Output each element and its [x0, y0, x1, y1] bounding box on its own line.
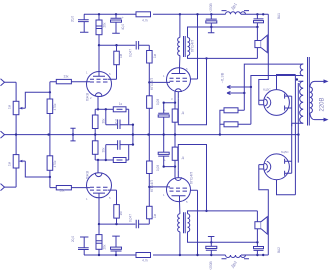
svg-text:ВА1: ВА1: [277, 13, 281, 19]
svg-text:+: +: [122, 16, 124, 20]
svg-text:20,0: 20,0: [70, 16, 74, 22]
svg-text:6Ж8: 6Ж8: [85, 170, 90, 179]
capacitor C3 on bus: [70, 128, 75, 141]
svg-text:1м: 1м: [8, 162, 12, 166]
wire heater column 2: [251, 76, 303, 125]
svg-text:20к: 20к: [103, 244, 107, 250]
svg-text:30к: 30к: [102, 147, 106, 153]
node bus junctions: [15, 133, 300, 135]
svg-text:+: +: [164, 109, 166, 113]
transformer T3 core: [308, 57, 310, 126]
svg-text:4,7к: 4,7к: [142, 259, 148, 263]
wire HV vertical 3: [297, 83, 299, 163]
svg-text:6П14П: 6П14П: [189, 172, 194, 185]
svg-text:1м: 1м: [119, 54, 123, 58]
svg-text:6П14П: 6П14П: [149, 78, 154, 91]
svg-text:+250В: +250В: [209, 3, 213, 12]
svg-text:1м: 1м: [153, 214, 157, 218]
svg-text:6Ц5С: 6Ц5С: [281, 150, 290, 154]
transformer T3 HV winding: [300, 81, 304, 123]
svg-text:6Ц5С: 6Ц5С: [263, 88, 272, 92]
heater arrow 1: [227, 85, 251, 88]
svg-text:1м: 1м: [119, 212, 123, 216]
svg-text:20к: 20к: [103, 22, 107, 28]
svg-text:1м: 1м: [153, 54, 157, 58]
svg-text:50,0: 50,0: [115, 119, 119, 125]
wire HV vertical 1: [291, 96, 293, 173]
ground bus common: [1, 131, 5, 138]
transformer T3 mains winding: [310, 87, 313, 113]
wire HV winding taps: [292, 81, 304, 126]
svg-text:30к: 30к: [102, 118, 106, 124]
svg-text:1м: 1м: [8, 105, 12, 109]
svg-text:6П14П: 6П14П: [149, 180, 154, 193]
heater arrow 2: [227, 91, 244, 94]
svg-text:+: +: [164, 159, 166, 163]
svg-text:6Ж8: 6Ж8: [85, 92, 90, 101]
bottom channel (mirrored): [1, 135, 296, 259]
resistor R13 hum balance: [224, 122, 238, 127]
svg-text:470к: 470к: [53, 103, 57, 110]
svg-text:ВА2: ВА2: [277, 247, 281, 253]
svg-text:33к: 33к: [64, 75, 70, 79]
top channel: [1, 11, 296, 135]
svg-text:0,08: 0,08: [156, 165, 160, 171]
svg-text:0,047: 0,047: [129, 214, 133, 222]
svg-text:40,0: 40,0: [121, 24, 125, 30]
wire mains terminal 1: [310, 81, 324, 87]
svg-text:33к: 33к: [60, 189, 66, 193]
svg-text:220В: 220В: [320, 97, 326, 111]
svg-text:20,0: 20,0: [71, 236, 75, 242]
svg-text:6П14П: 6П14П: [190, 40, 195, 53]
svg-text:470к: 470к: [53, 160, 57, 167]
svg-text:~6,3В: ~6,3В: [220, 72, 225, 83]
wire mains terminal 2: [310, 113, 324, 120]
svg-text:0,08: 0,08: [156, 99, 160, 105]
svg-text:+250В: +250В: [209, 261, 213, 270]
transformer T3 heater winding: [300, 64, 303, 76]
svg-text:4,7к: 4,7к: [142, 19, 148, 23]
resistor R12 hum balance: [224, 108, 238, 113]
wire heater column 1: [244, 64, 303, 110]
wire HV vertical 2: [294, 75, 296, 195]
svg-text:0,047: 0,047: [129, 49, 133, 57]
